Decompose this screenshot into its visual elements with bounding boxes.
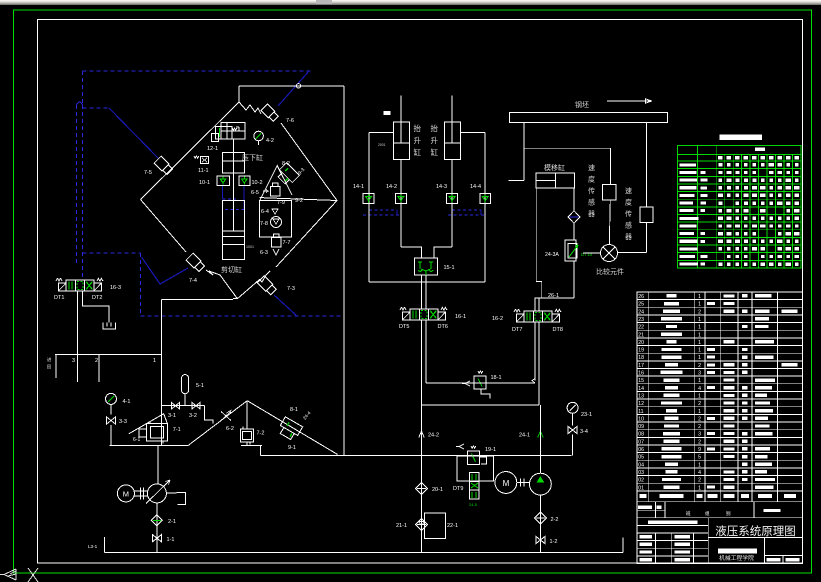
diamond outline bottom vertex notch [233, 298, 237, 300]
svg-text:24-5: 24-5 [469, 502, 478, 507]
svg-text:1: 1 [698, 325, 701, 331]
svg-text:钢坯: 钢坯 [575, 100, 589, 109]
svg-text:3: 3 [698, 371, 701, 377]
svg-text:DT5: DT5 [399, 324, 409, 330]
wire blue dashed mid-left [83, 252, 141, 254]
svg-text:DT2: DT2 [92, 295, 102, 301]
wire cross bus H1 [426, 382, 535, 384]
wire blue solid to 7-4 [142, 257, 189, 284]
svg-text:8-2: 8-2 [282, 161, 290, 167]
frame rect lift system [368, 133, 370, 282]
svg-text:09: 09 [638, 424, 644, 430]
filter blue stripe [568, 211, 580, 223]
svg-text:2: 2 [698, 416, 701, 422]
svg-text:感: 感 [588, 198, 595, 207]
svg-text:DT9: DT9 [453, 486, 463, 492]
title block band3 and title cell [637, 518, 802, 538]
UCS icon [0, 569, 16, 580]
inner box 6-4 7-8 [260, 201, 292, 237]
wire 16-2 down [534, 322, 536, 381]
svg-text:14-2: 14-2 [386, 184, 397, 190]
wire billet drop left [523, 123, 525, 181]
svg-text:DT7: DT7 [512, 327, 522, 333]
svg-text:03: 03 [638, 470, 644, 476]
wire 16-3 to manifold [77, 291, 79, 355]
pump 7-4 [186, 253, 205, 272]
svg-text:6-2: 6-2 [226, 426, 234, 432]
gauge 23-1 [567, 402, 578, 413]
wire 16-3 drain [83, 291, 109, 323]
svg-text:3-1: 3-1 [168, 413, 176, 419]
svg-text:21: 21 [638, 332, 644, 338]
svg-text:20-1: 20-1 [432, 487, 443, 493]
tank return line [104, 552, 623, 554]
valve 15-1 [414, 258, 437, 275]
action table title blob [719, 135, 762, 140]
svg-text:1: 1 [698, 355, 701, 361]
tent lines [188, 401, 247, 446]
svg-text:度: 度 [625, 198, 632, 207]
svg-text:2-1: 2-1 [168, 519, 176, 525]
svg-text:比较元件: 比较元件 [596, 267, 624, 276]
svg-text:13: 13 [638, 393, 644, 399]
filter 21-1 22-1 [416, 519, 428, 531]
speed sensor 1 [602, 185, 616, 201]
svg-text:1: 1 [698, 294, 701, 300]
svg-text:组: 组 [705, 510, 710, 516]
svg-text:7-5: 7-5 [144, 170, 152, 176]
valve 7-7 [272, 238, 282, 248]
svg-text:1-1: 1-1 [167, 537, 175, 543]
pump 7-3 [257, 276, 277, 296]
solenoid valve 16-3 [66, 280, 75, 291]
svg-text:19-1: 19-1 [485, 447, 496, 453]
arrow 24-1 [538, 431, 543, 438]
filter 2-1 [151, 515, 162, 526]
valve 3-4 [572, 413, 574, 425]
svg-text:2: 2 [95, 358, 98, 364]
svg-text:DT6: DT6 [438, 324, 448, 330]
svg-text:1: 1 [698, 378, 701, 384]
svg-text:15: 15 [638, 378, 644, 384]
action table cell blobs [718, 156, 722, 159]
svg-text:08: 08 [638, 432, 644, 438]
svg-text:25: 25 [638, 302, 644, 308]
valve 11-1 [201, 157, 209, 164]
svg-text:19: 19 [638, 348, 644, 354]
cylinder lift 2 [445, 122, 461, 160]
svg-text:2: 2 [698, 478, 701, 484]
wire pump down [156, 503, 158, 553]
valve 3-1 [172, 403, 180, 409]
wire cyl2 down [451, 160, 453, 248]
wire blue solid from 7-3 [274, 295, 297, 316]
pump drain tank [166, 492, 176, 494]
title block bottom-left grid [637, 533, 708, 564]
check valve 14-1 [363, 194, 374, 204]
svg-text:3-2: 3-2 [189, 413, 197, 419]
diamond outline bottom-right edge with 7-3 [237, 271, 270, 299]
valve 3-3 [107, 417, 116, 424]
check valve 10-2 [239, 176, 250, 186]
cylinder block central [221, 123, 245, 140]
svg-text:7-1: 7-1 [173, 427, 181, 433]
svg-text:剪切缸: 剪切缸 [221, 265, 242, 274]
svg-text:传: 传 [625, 209, 632, 218]
svg-text:DT1: DT1 [54, 295, 64, 301]
svg-text:2: 2 [698, 363, 701, 369]
wire mold cyl left down [536, 188, 542, 298]
tank symbol [103, 323, 115, 330]
svg-text:3: 3 [72, 358, 75, 364]
main pressure bus [261, 454, 572, 456]
svg-text:16-1: 16-1 [455, 314, 466, 320]
svg-text:感: 感 [625, 221, 632, 230]
svg-text:别: 别 [726, 510, 731, 517]
svg-text:7-4: 7-4 [189, 278, 197, 284]
diamond outline top-right zigzag and 7-6 [239, 102, 261, 114]
svg-text:2-2: 2-2 [551, 517, 559, 523]
svg-text:2: 2 [698, 309, 701, 315]
svg-text:7-2: 7-2 [257, 431, 265, 437]
relief valve 19-1 [456, 444, 464, 449]
svg-text:2: 2 [698, 401, 701, 407]
svg-text:L3-1: L3-1 [88, 544, 98, 549]
throttle 24-3A [573, 223, 575, 240]
svg-text:10-1: 10-1 [199, 180, 210, 186]
billet arrow [607, 99, 652, 103]
svg-text:9-3: 9-3 [297, 167, 306, 177]
svg-text:12: 12 [638, 401, 644, 407]
svg-text:1: 1 [153, 358, 156, 364]
wire 16-1 down [421, 320, 423, 405]
svg-text:1: 1 [698, 462, 701, 468]
arrow 24-2 [419, 431, 424, 438]
svg-text:6-3: 6-3 [260, 250, 268, 256]
wire main left vertical [343, 86, 345, 456]
wire manifold to diamond [160, 300, 162, 446]
node on top bus [296, 84, 300, 88]
grip blob [383, 111, 390, 115]
action table grid [678, 146, 802, 268]
svg-text:10-2: 10-2 [252, 180, 263, 186]
wire pump suction bus [110, 445, 189, 447]
wire into 16-2 [535, 298, 542, 311]
svg-text:M: M [123, 490, 129, 499]
diamond outline top-left edge [141, 102, 240, 200]
wire sensor bus [524, 147, 611, 149]
svg-text:2: 2 [698, 439, 701, 445]
svg-text:机械工程学院: 机械工程学院 [719, 554, 754, 562]
svg-text:缸: 缸 [414, 147, 422, 157]
svg-text:6-4: 6-4 [261, 209, 269, 215]
svg-text:21-1: 21-1 [396, 523, 407, 529]
svg-text:回: 回 [47, 364, 51, 370]
svg-text:3-3: 3-3 [119, 419, 127, 425]
svg-text:9: 9 [698, 447, 701, 453]
svg-text:升: 升 [431, 136, 439, 145]
pump 7-5 [154, 156, 173, 175]
comparator [601, 245, 618, 262]
wire mold cyl right down [573, 188, 575, 211]
svg-text:1: 1 [698, 393, 701, 399]
BOM table [637, 292, 802, 491]
svg-text:1: 1 [698, 317, 701, 323]
wire accumulator branch [161, 405, 204, 407]
accumulator 5-1 [182, 375, 189, 394]
svg-text:1: 1 [698, 302, 701, 308]
svg-text:24-1: 24-1 [519, 433, 530, 439]
svg-text:16-2: 16-2 [492, 316, 503, 322]
svg-text:16: 16 [638, 371, 644, 377]
billet bar [510, 112, 668, 122]
svg-text:进: 进 [47, 356, 52, 363]
svg-text:4-2: 4-2 [266, 138, 274, 144]
filter 20-1 [416, 483, 428, 495]
pump 23 main [530, 473, 552, 495]
svg-text:M: M [503, 479, 510, 488]
filter 2-2 [534, 512, 546, 524]
valve 6-2 throttle [221, 412, 231, 421]
valve 7-9 small [271, 187, 281, 197]
svg-text:24-4: 24-4 [302, 410, 312, 421]
cylinder lift 1 [393, 122, 409, 160]
svg-text:1: 1 [698, 409, 701, 415]
svg-text:04: 04 [638, 462, 644, 468]
svg-text:22-1: 22-1 [447, 523, 458, 529]
svg-text:1001: 1001 [246, 245, 254, 249]
wire blue dashed 10-1 10-2 pilots [222, 186, 224, 199]
title block band2 [637, 502, 802, 518]
svg-text:14-4: 14-4 [470, 184, 481, 190]
inner triangle [260, 166, 292, 201]
svg-text:1: 1 [698, 348, 701, 354]
svg-text:1: 1 [698, 332, 701, 338]
svg-text:6-5: 6-5 [251, 190, 259, 196]
gauge 4-1 [106, 393, 117, 404]
wires below check valves [368, 204, 370, 282]
svg-text:20: 20 [638, 340, 644, 346]
svg-text:器: 器 [588, 210, 595, 218]
wire blue dashed 14-3 14-4 pilots [451, 204, 453, 210]
title block bottom-right cells [708, 537, 802, 563]
wire pump up [539, 405, 541, 473]
solenoid valve DT9 [470, 473, 480, 500]
valve 1-1 [152, 535, 161, 542]
svg-text:7-6: 7-6 [286, 118, 294, 124]
wire pump suction [539, 495, 541, 553]
svg-text:23: 23 [638, 317, 644, 323]
action table header blob [755, 148, 765, 152]
valve 8-2 rotated [275, 163, 299, 187]
svg-text:4: 4 [698, 386, 701, 392]
svg-text:抬: 抬 [431, 123, 439, 133]
check valve 14-3 [447, 194, 458, 204]
svg-text:3: 3 [698, 432, 701, 438]
svg-text:7-8: 7-8 [260, 221, 268, 227]
svg-text:02: 02 [638, 478, 644, 484]
svg-text:12-1: 12-1 [207, 146, 218, 152]
check valve 14-4 [480, 194, 491, 204]
manifold bus [55, 354, 162, 356]
svg-text:DT8: DT8 [553, 327, 563, 333]
svg-text:14-1: 14-1 [353, 184, 364, 190]
diamond outline bottom-left edge with 7-4 [141, 200, 187, 253]
wire converge to 15-1 [401, 247, 422, 258]
speed sensor 2 [640, 207, 653, 222]
pump 7-2 [240, 429, 253, 442]
svg-text:度: 度 [588, 175, 595, 184]
check valve 14-2 [396, 194, 407, 204]
svg-text:升: 升 [414, 136, 422, 145]
svg-text:01: 01 [638, 485, 644, 491]
motor M2 [495, 472, 517, 494]
pump 7-8 [271, 217, 282, 228]
svg-text:7-3: 7-3 [287, 286, 295, 292]
svg-text:3-4: 3-4 [580, 429, 588, 435]
valve 12-1 [216, 127, 233, 139]
svg-text:23-1: 23-1 [581, 412, 592, 418]
wire 15-1 to 16-1 double [421, 275, 423, 309]
svg-text:速: 速 [588, 164, 595, 172]
svg-text:18: 18 [638, 355, 644, 361]
svg-text:15-1: 15-1 [444, 265, 455, 271]
wire blue solid to 7-6 [278, 71, 309, 106]
svg-text:17: 17 [638, 363, 644, 369]
wire blue dashed long bottom [141, 315, 345, 317]
svg-text:液压系统原理图: 液压系统原理图 [715, 524, 796, 538]
svg-text:4-1: 4-1 [123, 399, 131, 405]
svg-text:缸: 缸 [431, 147, 439, 157]
svg-text:24: 24 [638, 309, 644, 315]
svg-text:9-1: 9-1 [288, 445, 296, 451]
svg-text:6-1: 6-1 [133, 437, 140, 443]
pump 7-6 [261, 104, 279, 122]
svg-text:1-2: 1-2 [550, 539, 558, 545]
wire blue solid to 7-5 [109, 108, 159, 159]
svg-text:4: 4 [698, 470, 701, 476]
svg-text:24-3A: 24-3A [545, 252, 559, 258]
check valve 10-1 [217, 176, 229, 186]
svg-text:7-7: 7-7 [283, 240, 291, 246]
gauge 4-2 [254, 131, 264, 141]
wire comparator left [583, 252, 601, 254]
wire blue dashed left drop [82, 71, 84, 105]
svg-text:11-1: 11-1 [198, 168, 209, 174]
svg-text:11: 11 [638, 409, 643, 415]
svg-text:速: 速 [625, 187, 632, 195]
motor M and main pump [117, 485, 134, 502]
svg-text:18-1: 18-1 [491, 375, 502, 381]
svg-text:05: 05 [638, 455, 644, 461]
svg-text:10: 10 [638, 416, 644, 422]
svg-text:1: 1 [698, 340, 701, 346]
svg-text:5: 5 [698, 455, 701, 461]
valve 1-2 [536, 536, 545, 543]
svg-text:14-3: 14-3 [436, 184, 447, 190]
wire 24-2 down to tank [421, 405, 423, 553]
valve 8-1 9-1 rotated [277, 417, 303, 442]
svg-text:24-2: 24-2 [428, 433, 439, 439]
wire blue dashed to 7-5 [83, 107, 110, 109]
wire cyl1 down [400, 160, 402, 248]
svg-text:14: 14 [638, 386, 644, 392]
svg-text:2: 2 [698, 424, 701, 430]
wire cross bus H2 [422, 404, 540, 406]
svg-text:07: 07 [638, 439, 644, 445]
wire 24-3A down [573, 261, 575, 298]
cylinder mold shift [536, 173, 574, 188]
svg-text:传: 传 [588, 186, 595, 195]
svg-text:器: 器 [625, 233, 632, 241]
wire top bus [238, 86, 240, 102]
coupling [517, 482, 530, 484]
wire blue dashed 14-1 14-2 pilots [368, 204, 370, 210]
valve 3-2 [192, 403, 200, 409]
wire pump to motor [157, 446, 159, 484]
title block header row [637, 491, 802, 502]
svg-text:5-1: 5-1 [196, 383, 204, 389]
svg-text:2001: 2001 [378, 143, 386, 147]
svg-text:16-3: 16-3 [110, 285, 121, 291]
solenoid valve 16-2 [524, 311, 533, 322]
svg-text:26: 26 [638, 294, 644, 300]
svg-text:22: 22 [638, 325, 644, 331]
svg-text:抬: 抬 [414, 123, 422, 133]
svg-text:模移缸: 模移缸 [544, 163, 565, 172]
pump 7-1 [129, 414, 168, 434]
wire blue dashed trunk top [83, 70, 312, 72]
svg-text:1: 1 [698, 485, 701, 491]
svg-text:06: 06 [638, 447, 644, 453]
svg-text:压下缸: 压下缸 [242, 153, 263, 162]
svg-text:班: 班 [686, 510, 691, 517]
svg-text:8-1: 8-1 [290, 407, 298, 413]
relief valve 18-1 [474, 376, 486, 389]
solenoid valve 16-1 [410, 309, 419, 320]
